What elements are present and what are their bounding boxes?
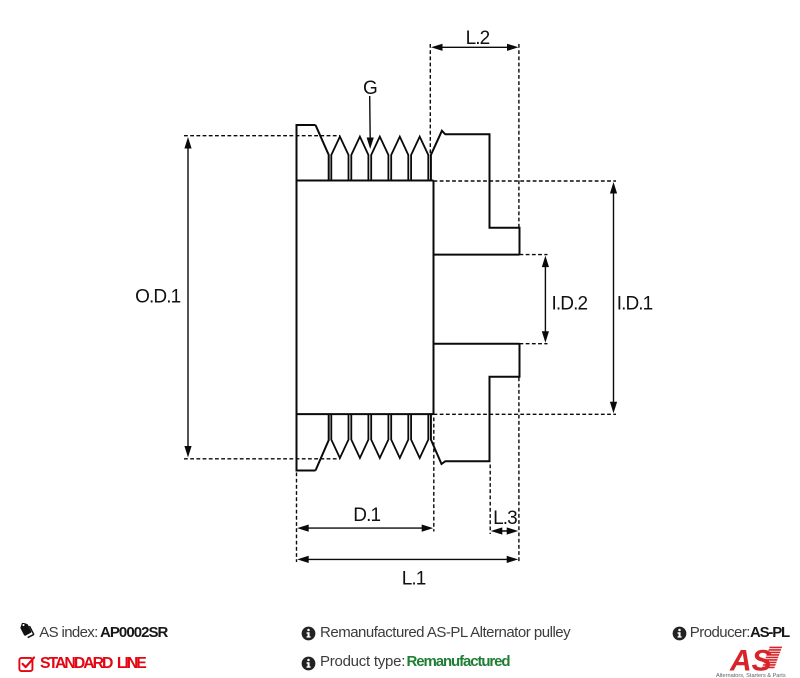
arrowhead L.2 right xyxy=(507,44,519,51)
text AS index xyxy=(39,624,97,641)
pulley body bottom base line xyxy=(297,413,434,415)
svg-text:G: G xyxy=(363,78,377,99)
bottom belt ribs xyxy=(331,414,428,458)
arrowhead I.D.1 up xyxy=(610,182,617,194)
logo stripes xyxy=(762,647,782,669)
svg-text:L.1: L.1 xyxy=(402,569,426,590)
text remanufactured pulley xyxy=(320,624,570,641)
dimension line I.D.1 xyxy=(613,192,615,403)
svg-text:L.3: L.3 xyxy=(493,508,517,529)
svg-text:I.D.1: I.D.1 xyxy=(617,294,653,315)
text STANDARD LINE xyxy=(40,655,145,673)
info icon 3 xyxy=(672,626,687,641)
info icon 2 xyxy=(301,656,316,671)
dimension line L.3 xyxy=(494,530,515,532)
svg-text:I.D.2: I.D.2 xyxy=(552,294,588,315)
leader line G xyxy=(369,96,372,140)
dimension line L.1 xyxy=(307,558,508,560)
arrowhead O.D.1 up xyxy=(184,137,191,149)
extension line I.D.1 top xyxy=(434,180,617,182)
extension line I.D.1 bottom xyxy=(434,413,617,415)
pulley body right edge xyxy=(433,181,435,415)
top belt ribs xyxy=(331,137,428,181)
extension line O.D.1 top xyxy=(184,135,340,137)
extension line O.D.1 bottom xyxy=(184,458,340,460)
svg-text:Alternators, Starters & Parts: Alternators, Starters & Parts xyxy=(716,673,786,678)
arrowhead L.1 left xyxy=(297,556,309,563)
pulley body top base line xyxy=(297,180,434,182)
extension line right upper xyxy=(518,44,520,227)
hub top profile xyxy=(431,131,520,255)
AS-PL logo xyxy=(714,643,798,678)
extension stub I.D.2 top xyxy=(520,254,548,256)
extension line L.2 left xyxy=(429,44,431,156)
arrowhead D.1 left xyxy=(297,525,309,532)
extension line left lower xyxy=(296,473,298,563)
arrowhead I.D.1 down xyxy=(610,402,617,414)
text producer xyxy=(690,624,750,641)
dimension line I.D.2 xyxy=(544,265,546,333)
arrowhead L.3 left xyxy=(491,527,503,534)
dimension line D.1 xyxy=(307,527,423,529)
arrowhead I.D.2 up xyxy=(542,256,549,268)
bore line bottom I.D.2 xyxy=(434,343,520,345)
svg-text:D.1: D.1 xyxy=(353,505,380,526)
bore line top I.D.2 xyxy=(434,254,520,256)
svg-text:L.2: L.2 xyxy=(466,28,490,49)
info icon 1 xyxy=(301,626,316,641)
arrowhead L.3 right xyxy=(507,527,519,534)
extension line right lower xyxy=(518,378,520,564)
extension stub I.D.2 bottom xyxy=(520,343,548,345)
extension line L.3 left xyxy=(489,465,491,535)
arrowhead D.1 right xyxy=(422,525,434,532)
tag icon (AS index) xyxy=(18,623,36,640)
arrowhead O.D.1 down xyxy=(184,446,191,458)
checkbox icon (standard line) xyxy=(17,654,36,673)
dimension line L.2 xyxy=(440,46,509,48)
dimension line O.D.1 xyxy=(187,147,189,448)
arrowhead L.1 right xyxy=(507,556,519,563)
hub bottom profile xyxy=(431,344,520,464)
arrowhead G down xyxy=(367,138,374,150)
extension line D.1 right xyxy=(433,418,435,532)
svg-text:O.D.1: O.D.1 xyxy=(135,287,180,308)
pulley body left edge and flanges xyxy=(297,125,329,471)
arrowhead L.2 left xyxy=(431,44,443,51)
arrowhead I.D.2 down xyxy=(542,331,549,343)
text product type xyxy=(320,653,405,670)
